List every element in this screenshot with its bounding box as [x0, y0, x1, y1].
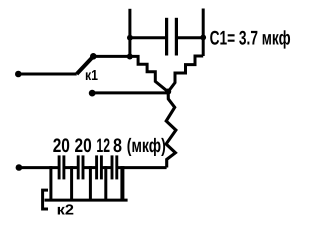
node resistor junction	[165, 89, 171, 95]
wire left supply vertical	[128, 9, 131, 57]
capacitor 12mkf #3	[97, 155, 102, 179]
node junction left supply / C1	[127, 35, 133, 41]
wire bottom rail segment 3	[83, 166, 97, 169]
node middle tap start	[89, 90, 96, 97]
wire bottom rail segment 5	[117, 166, 167, 169]
wire middle tap	[92, 91, 168, 94]
wire tap bar 2	[70, 166, 73, 200]
node junction right supply / C1	[200, 35, 206, 41]
node k1 blade top	[90, 53, 97, 60]
wire bottom bus	[45, 199, 128, 202]
wire switch k1 input	[18, 73, 76, 76]
svg-text:к2: к2	[57, 203, 74, 219]
wire tap bar 4	[104, 166, 107, 200]
switch K1 blade	[77, 56, 94, 74]
wire C1 left lead	[130, 36, 167, 39]
wire bottom rail segment 2	[64, 166, 78, 169]
capacitor 8mkf #4	[112, 155, 117, 179]
wire right supply vertical	[202, 9, 205, 57]
resistor left staircase	[130, 56, 168, 91]
wire bottom rail segment 1	[19, 166, 59, 169]
wire bottom rail segment 4	[101, 166, 112, 169]
wire tap bar 1	[49, 166, 52, 200]
capacitor C1	[167, 18, 177, 56]
capacitor 20mkf #2	[78, 155, 83, 179]
resistor vertical zigzag	[166, 92, 176, 168]
node terminal bottom left	[16, 164, 23, 171]
node junction left supply / k1 wire	[127, 54, 133, 60]
svg-text:C1= 3.7 мкф: C1= 3.7 мкф	[210, 27, 291, 49]
switch K2 bracket	[43, 190, 48, 209]
capacitor 20mkf #1	[59, 155, 64, 179]
wire C1 right lead	[177, 36, 204, 39]
wire tap bar 5	[120, 166, 124, 200]
resistor right staircase	[168, 56, 203, 92]
wire k1 to resistor network	[93, 55, 130, 58]
svg-text:к1: к1	[85, 68, 98, 84]
svg-text:2020128(мкф): 2020128(мкф)	[53, 135, 166, 157]
node terminal left	[15, 71, 22, 78]
wire tap bar 3	[89, 166, 92, 200]
